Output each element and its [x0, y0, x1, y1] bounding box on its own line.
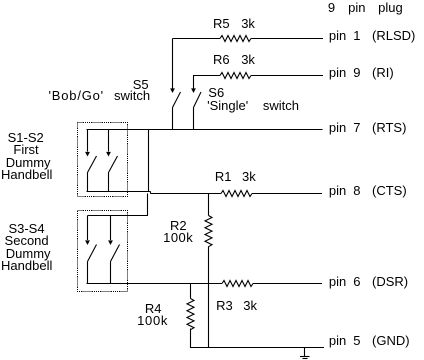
- label pin 1 RLSD name: [372, 29, 415, 42]
- label pin 6 DSR name: [372, 275, 408, 288]
- wire S4 lower vertical: [110, 262, 112, 284]
- label pin 6 DSR 'pin': [329, 275, 346, 288]
- label pin 9 RI name: [372, 66, 394, 79]
- label pin 1 RLSD 'pin': [329, 29, 346, 42]
- label R1: [215, 170, 232, 183]
- wire pin9 right (R6 to pin 9): [251, 75, 323, 77]
- wire S2 lower vertical: [108, 173, 110, 192]
- label Single: [207, 99, 248, 112]
- wire CTS to R2 top: [208, 194, 210, 216]
- wire rail RTS-bus to crossover: [148, 130, 150, 192]
- label header pin: [348, 1, 365, 14]
- label header plug: [378, 1, 403, 14]
- label Handbell 1: [1, 168, 52, 181]
- wire S3 lower vertical: [87, 262, 89, 284]
- ground stem: [304, 348, 306, 357]
- wire S5 upper vertical: [172, 39, 174, 89]
- label pin 5 GND 'pin': [329, 334, 346, 347]
- wire S1 upper vertical: [87, 130, 89, 152]
- label R6 value: [241, 53, 255, 66]
- label Handbell 2: [1, 259, 52, 272]
- label pin 5 GND number: [353, 334, 360, 347]
- label R4: [145, 302, 162, 315]
- label Second: [5, 234, 49, 247]
- label S1-S2: [8, 131, 44, 144]
- wire step joint: [150, 192, 152, 194]
- wire S2 upper vertical: [108, 130, 110, 152]
- wire R2 bottom to DSR node: [208, 247, 210, 284]
- wire S3 upper vertical: [87, 216, 89, 241]
- label S5 switch word: [114, 89, 150, 102]
- switch S5 contact arrow: [170, 88, 175, 93]
- switch S1 blade: [88, 156, 97, 173]
- label pin 8 CTS number: [353, 184, 360, 197]
- label header 9: [328, 1, 335, 14]
- label pin 9 RI number: [353, 66, 360, 79]
- label S6 switch word: [263, 99, 299, 112]
- label Dummy 2: [6, 247, 51, 260]
- label pin 7 RTS 'pin': [329, 121, 346, 134]
- label pin 1 RLSD number: [353, 29, 360, 42]
- wire R4 bottom: [190, 329, 192, 348]
- label S5: [133, 78, 149, 91]
- label S3-S4: [8, 222, 44, 235]
- label R4 value: [137, 314, 168, 327]
- label pin 9 RI 'pin': [329, 66, 346, 79]
- switch S1 contact arrow: [85, 152, 90, 157]
- switch S4 contact arrow: [108, 240, 113, 245]
- wire CTS left (to R1): [151, 193, 222, 195]
- switch S2 blade: [109, 156, 118, 173]
- dummy handbell box S1-S2 (dotted): [78, 123, 128, 197]
- wire DSR node to ground bus: [208, 284, 210, 348]
- wire DSR to R4 top: [190, 284, 192, 299]
- label R5: [213, 17, 230, 30]
- wire pin9 left (S6 to R6): [193, 75, 220, 77]
- resistor R2 100k: [205, 216, 212, 247]
- resistor R4 100k: [187, 299, 194, 330]
- switch S3 blade: [88, 245, 97, 262]
- label R6: [213, 53, 230, 66]
- switch S6 contact arrow: [191, 88, 196, 93]
- wire GND bus (pin 5): [190, 347, 324, 349]
- wire S4 upper vertical: [110, 216, 112, 241]
- label First: [13, 143, 38, 156]
- resistor R1 3k: [221, 191, 252, 197]
- wire pin1 right (R5 to pin 1): [251, 38, 323, 40]
- wire S6 upper vertical: [193, 76, 195, 89]
- label S6: [208, 86, 224, 99]
- ground bar 1: [300, 356, 310, 358]
- label R5 value: [241, 17, 255, 30]
- label R1 value: [242, 170, 256, 183]
- wire RTS bus (pin 7): [87, 129, 323, 131]
- switch S4 blade: [111, 245, 120, 262]
- label pin 7 RTS number: [353, 121, 360, 134]
- label R3 value: [243, 299, 257, 312]
- resistor R6 3k: [220, 73, 251, 79]
- label pin 5 GND name: [372, 334, 410, 347]
- wire DSR left (S3-S4 bottom bus to R3): [87, 283, 223, 285]
- wire DSR right (R3 to pin 6): [253, 283, 322, 285]
- wire S1 lower vertical: [87, 173, 89, 192]
- resistor R5 3k: [220, 36, 251, 42]
- label R3: [216, 299, 233, 312]
- ground bar 2: [303, 358, 308, 360]
- label pin 8 CTS 'pin': [329, 184, 346, 197]
- wire rail crossover to S3-S4 box: [147, 194, 149, 216]
- wire S3-S4 top bus: [88, 215, 149, 217]
- switch S6 blade: [194, 92, 202, 108]
- switch S3 contact arrow: [85, 240, 90, 245]
- switch S5 blade: [173, 92, 181, 108]
- wire pin1 left (node to R5): [173, 38, 221, 40]
- dummy handbell box S3-S4 (dotted): [78, 211, 128, 292]
- wire S1-S2 bottom bus: [87, 191, 151, 193]
- wire S6 lower vertical: [193, 108, 195, 130]
- label pin 6 DSR number: [353, 275, 360, 288]
- label R2 value: [163, 231, 193, 244]
- resistor R3 3k: [222, 281, 253, 287]
- label pin 8 CTS name: [372, 184, 407, 197]
- label R2: [170, 219, 187, 232]
- wire CTS right (R1 to pin 8): [252, 193, 322, 195]
- wire S5 lower vertical: [172, 108, 174, 130]
- label pin 7 RTS name: [372, 121, 406, 134]
- switch S2 contact arrow: [106, 152, 111, 157]
- label Bob/Go: [49, 89, 104, 102]
- label Dummy 1: [6, 156, 51, 169]
